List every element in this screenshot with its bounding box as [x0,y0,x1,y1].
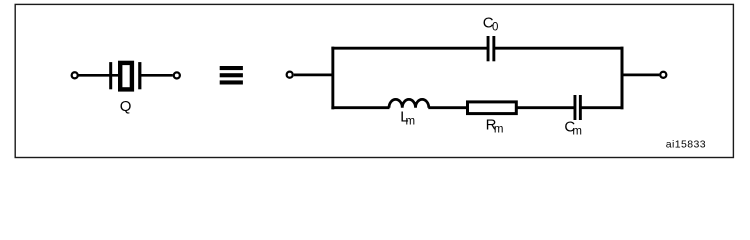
svg-text:ai15833: ai15833 [666,139,706,151]
svg-text:Q: Q [120,98,132,115]
